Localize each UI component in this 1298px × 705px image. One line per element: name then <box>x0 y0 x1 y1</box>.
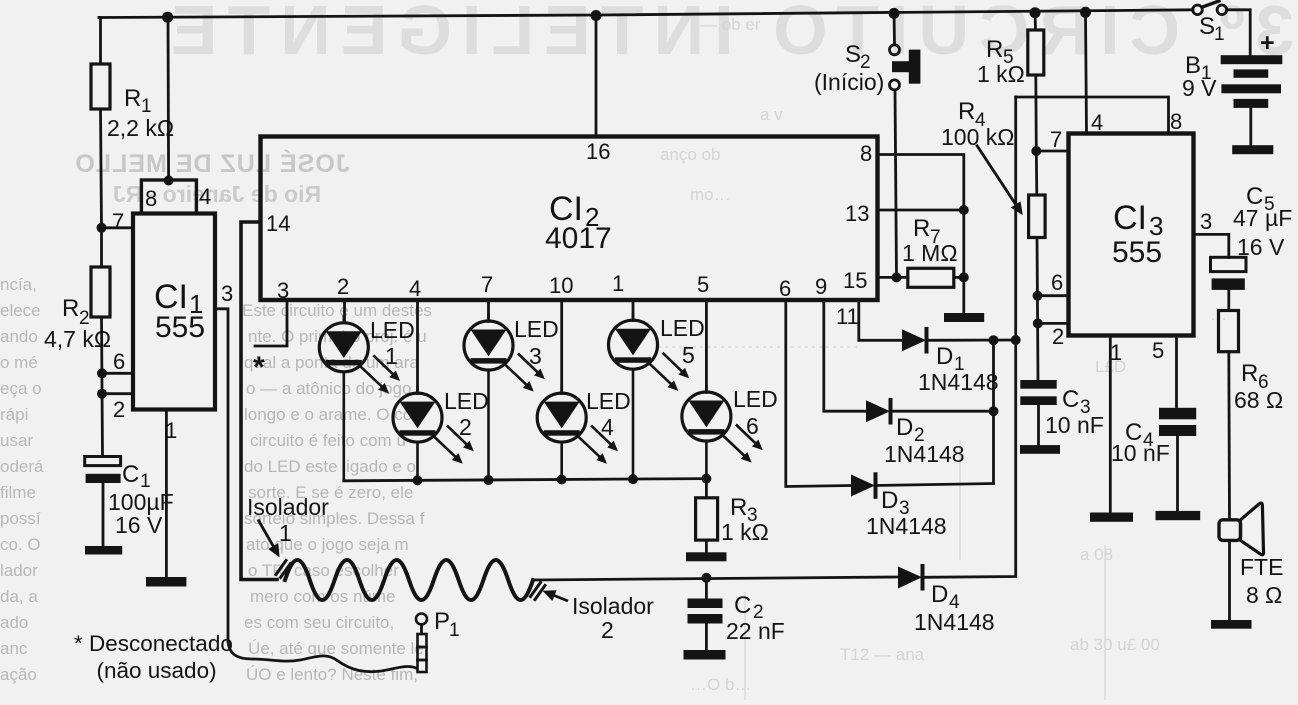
wire pin 16 to rail <box>595 15 598 137</box>
node D1/vertical A junction <box>989 335 999 345</box>
wire R5 to node7 of CI3 <box>1034 75 1037 151</box>
LED 6 <box>682 385 761 479</box>
ghost central column <box>242 301 432 684</box>
ghost faint bits right side <box>660 15 1227 694</box>
node CI3 pin7 junction <box>1031 146 1041 156</box>
label R3 <box>721 494 769 545</box>
LED 1 <box>319 315 398 481</box>
svg-text:…O b…: …O b… <box>690 675 751 694</box>
node pin6 junction <box>97 368 107 378</box>
label D3 <box>866 487 947 539</box>
ground under R3 <box>686 552 727 561</box>
ground under speaker <box>1211 620 1252 629</box>
label R4 <box>941 98 1014 150</box>
arrow to Isolador 1 <box>258 520 278 555</box>
svg-text:R: R <box>124 85 141 112</box>
svg-text:R: R <box>986 36 1003 63</box>
svg-text:100 kΩ: 100 kΩ <box>941 124 1014 150</box>
svg-text:LED: LED <box>514 316 559 342</box>
svg-text:* Desconectado: * Desconectado <box>74 631 233 656</box>
label R1 <box>107 85 174 141</box>
node rail junction R1/CI1 <box>162 12 173 23</box>
label Isolador 2 <box>572 593 654 643</box>
svg-text:10: 10 <box>549 273 573 298</box>
svg-text:ato que o jogo seja m: ato que o jogo seja m <box>246 535 409 554</box>
svg-text:2: 2 <box>337 274 349 299</box>
label footnote <box>74 631 233 683</box>
svg-text:Isolador: Isolador <box>247 494 329 520</box>
label Isolador 1 <box>247 494 329 546</box>
wire pin 15 <box>878 276 908 279</box>
wire rail to pin 4 CI3 <box>1086 12 1087 134</box>
ground under pin 1 CI1 <box>146 577 186 587</box>
wire CI1 pin 3 stub <box>215 309 228 641</box>
svg-text:S: S <box>845 41 861 68</box>
wire pin 2 <box>102 392 133 395</box>
svg-text:usar: usar <box>0 431 33 450</box>
svg-text:R: R <box>1241 360 1258 387</box>
svg-text:CI: CI <box>1113 199 1147 237</box>
svg-text:eça o: eça o <box>0 379 42 398</box>
wire curvy lead to probe P1 <box>228 641 416 672</box>
svg-text:a 08: a 08 <box>1080 545 1113 564</box>
svg-text:R: R <box>62 295 79 322</box>
svg-text:1 MΩ: 1 MΩ <box>902 240 958 266</box>
wire coil end to D4 and up to node <box>533 577 898 580</box>
svg-text:R: R <box>730 494 747 521</box>
svg-text:16 V: 16 V <box>1237 234 1285 260</box>
svg-text:9: 9 <box>815 274 827 299</box>
probe P1 <box>416 614 427 673</box>
wire pin 5 CI3 to C4 <box>1175 336 1178 408</box>
label FTE speaker <box>1240 554 1283 608</box>
svg-text:filme: filme <box>0 483 36 502</box>
wire pin 9 down to D2 <box>824 300 866 411</box>
wire diode common vertical A <box>992 340 995 483</box>
wire pin 1 CI3 to ground <box>1109 336 1112 513</box>
wire pin 1 to LED5 <box>632 300 635 321</box>
svg-text:5: 5 <box>697 272 709 297</box>
svg-text:2: 2 <box>1052 324 1064 349</box>
node D2 junction <box>989 406 999 416</box>
svg-text:C: C <box>122 461 139 488</box>
ground under pin1 CI3 <box>1090 513 1133 522</box>
ground under C2 <box>684 650 726 660</box>
svg-text:oderá: oderá <box>0 457 44 476</box>
svg-text:5: 5 <box>682 342 695 368</box>
label R7 <box>902 215 958 266</box>
label C3 <box>1045 386 1104 438</box>
wire pin 11 down to D1 <box>859 300 902 340</box>
op-amp CI1 555 body <box>133 214 215 410</box>
wire pin 14 to coil <box>241 222 277 580</box>
svg-text:47 µF: 47 µF <box>1233 205 1292 231</box>
svg-text:16: 16 <box>586 139 610 164</box>
LED 5 <box>609 313 688 480</box>
svg-text:ncía,: ncía, <box>0 275 37 294</box>
svg-text:ab 30 u£ 00: ab 30 u£ 00 <box>1070 635 1160 654</box>
svg-text:P: P <box>434 608 450 635</box>
wire rail junction down to CI1 top <box>167 17 170 180</box>
label LED5 <box>660 315 705 368</box>
svg-text:(não usado): (não usado) <box>97 658 217 683</box>
svg-text:R: R <box>958 98 975 125</box>
resistor R3 <box>696 498 718 540</box>
svg-text:T12 — ana: T12 — ana <box>840 645 925 664</box>
capacitor C5 <box>1211 257 1247 310</box>
label P1 <box>434 608 460 641</box>
svg-text:circuito é feito com u: circuito é feito com u <box>250 431 406 450</box>
ground under C4 <box>1156 511 1201 520</box>
wire pin 13 <box>878 209 964 212</box>
wire R7 right <box>954 276 964 279</box>
arrow to R4 <box>976 145 1021 213</box>
node S2/pin15 junction <box>892 272 902 282</box>
label D4 <box>914 581 995 635</box>
wire pin 6 CI3 <box>1038 294 1069 297</box>
LED 3 <box>464 314 543 481</box>
node bus junction LED2 <box>413 475 423 485</box>
svg-text:ando: ando <box>0 327 38 346</box>
svg-text:Úe, até que somente le: Úe, até que somente le <box>248 639 424 658</box>
svg-text:10 nF: 10 nF <box>1111 440 1170 466</box>
wire pin 5 to LED6 <box>705 300 708 393</box>
node rail junction S2 <box>889 8 900 19</box>
capacitor C3 <box>1020 380 1056 445</box>
insulator hatch Isolador 1 <box>276 561 291 578</box>
svg-text:*: * <box>253 351 265 384</box>
svg-text:1: 1 <box>449 620 460 641</box>
svg-text:D: D <box>936 343 953 370</box>
switch S1 <box>1193 1 1251 55</box>
wire coil of game (arame) <box>285 560 533 600</box>
svg-text:JOSÉ LUZ DE MELLO: JOSÉ LUZ DE MELLO <box>74 149 349 178</box>
svg-text:C: C <box>734 592 751 619</box>
svg-text:o — a atônico do jogo: o — a atônico do jogo <box>246 379 411 398</box>
label LED6 <box>733 386 778 439</box>
label CI3 <box>1112 199 1163 269</box>
svg-text:es com seu circuito,: es com seu circuito, <box>244 613 394 632</box>
svg-text:ado: ado <box>0 613 28 632</box>
svg-text:4: 4 <box>409 276 421 301</box>
ghost left margin column <box>0 275 44 684</box>
svg-text:lador: lador <box>0 561 38 580</box>
svg-text:2,2 kΩ: 2,2 kΩ <box>107 115 174 141</box>
node CI1 top junction <box>164 176 174 186</box>
svg-text:1 kΩ: 1 kΩ <box>977 61 1025 87</box>
svg-text:+: + <box>1260 29 1275 57</box>
svg-text:anc: anc <box>0 639 28 658</box>
svg-text:1N4148: 1N4148 <box>918 369 999 395</box>
ghost author credit <box>74 149 349 207</box>
wire pin 6 down to D3 <box>786 300 851 487</box>
wire top supply rail <box>99 10 1193 18</box>
svg-text:— ob er: — ob er <box>700 15 761 34</box>
wire R1 bottom to node 7 <box>101 109 102 228</box>
IC CI3 555 body <box>1069 134 1194 336</box>
pin labels CI3 <box>1050 109 1212 365</box>
svg-text:rápi: rápi <box>0 405 28 424</box>
svg-text:1N4148: 1N4148 <box>866 513 947 539</box>
svg-text:1: 1 <box>141 96 152 117</box>
svg-text:1N4148: 1N4148 <box>914 609 995 635</box>
svg-text:6: 6 <box>113 349 125 374</box>
wire pin 8 right to ground chain <box>878 155 964 314</box>
node bus junction LED3 <box>484 475 494 485</box>
svg-text:1: 1 <box>612 271 624 296</box>
svg-text:9 V: 9 V <box>1182 75 1217 101</box>
ground under C3 <box>1020 445 1060 454</box>
svg-text:S: S <box>1199 13 1215 40</box>
label LED1 <box>370 317 415 369</box>
svg-text:do LED este ligado e o: do LED este ligado e o <box>244 457 416 476</box>
svg-text:2: 2 <box>113 397 125 422</box>
wire pin 10 to LED4 <box>560 300 563 394</box>
wire pin 3 stub unused <box>255 300 287 346</box>
svg-text:da, a: da, a <box>0 587 38 606</box>
wire pin 3 CI3 to C5 <box>1194 234 1229 257</box>
wire pin 4 to LED2 <box>416 300 419 394</box>
svg-text:1: 1 <box>1214 24 1225 45</box>
node rail junction CI3 pin4 <box>1080 7 1091 18</box>
ground under C1 <box>85 546 122 555</box>
wire CI1 pin 1 to ground <box>165 410 168 578</box>
svg-text:3: 3 <box>1200 209 1212 234</box>
diode D4 <box>898 97 1016 589</box>
svg-text:mero com os núme: mero com os núme <box>250 587 396 606</box>
label LED3 <box>514 316 559 369</box>
svg-text:LED: LED <box>586 388 631 414</box>
wire pin 7 to LED3 <box>487 300 490 322</box>
svg-text:LED: LED <box>370 317 415 343</box>
svg-text:1N4148: 1N4148 <box>884 441 965 467</box>
wire left branch down to R1 <box>99 18 101 65</box>
svg-text:2: 2 <box>459 414 472 440</box>
wire pin 6 <box>102 372 133 375</box>
label C2 <box>726 592 785 644</box>
op-amp CI1 pins 8-4 notch <box>141 180 196 214</box>
svg-text:o TR, caso escolher: o TR, caso escolher <box>248 561 399 580</box>
IC CI2 4017 body <box>261 137 878 301</box>
wire pin 7 CI3 <box>1036 150 1068 153</box>
svg-text:C: C <box>1062 386 1079 413</box>
ghost bleed-through banner <box>161 0 1294 69</box>
svg-text:11: 11 <box>836 304 859 329</box>
diode D1 <box>902 329 1016 352</box>
capacitor C1 <box>85 457 121 547</box>
resistor R5 <box>1028 30 1044 75</box>
switch S2 pushbutton <box>890 45 921 90</box>
svg-text:LED: LED <box>444 388 489 414</box>
svg-text:(Início): (Início) <box>814 69 884 95</box>
LED 4 <box>537 386 616 480</box>
label CI1 <box>154 278 205 344</box>
resistor R2 <box>91 267 110 317</box>
resistor R1 <box>91 64 110 109</box>
svg-text:6: 6 <box>746 413 759 439</box>
label S1 <box>1199 13 1225 45</box>
node C2 tap <box>701 573 711 583</box>
label CI2 <box>545 190 612 255</box>
wire R3 to ground <box>705 540 708 552</box>
svg-text:4017: 4017 <box>545 222 612 255</box>
svg-text:FTE: FTE <box>1240 554 1283 580</box>
node bus junction LED6/R3 <box>701 474 711 484</box>
pin labels CI1 <box>112 184 233 443</box>
wire node7 down to R2 <box>100 228 103 267</box>
resistor R6 <box>1219 311 1239 352</box>
wire pin 2 to LED1 <box>343 300 346 323</box>
wire pin 7 to CI1 <box>102 226 134 229</box>
node bus junction LED5 <box>628 474 638 484</box>
label LED4 <box>586 388 631 440</box>
svg-text:D: D <box>881 487 898 514</box>
node bus junction LED4 <box>557 475 567 485</box>
node rail junction R5 <box>1030 7 1041 18</box>
svg-text:1: 1 <box>165 418 177 443</box>
svg-text:15: 15 <box>843 268 867 293</box>
svg-text:555: 555 <box>155 311 205 344</box>
svg-text:2: 2 <box>601 617 614 643</box>
wire rail to S2 <box>893 13 896 45</box>
label C4 <box>1111 419 1170 466</box>
svg-text:1: 1 <box>1110 340 1122 365</box>
wire LED cathode bus <box>344 479 707 481</box>
svg-text:D: D <box>896 414 913 441</box>
svg-text:4,7 kΩ: 4,7 kΩ <box>44 326 111 352</box>
wire R4 down through pin6 pin2 to C3 <box>1037 238 1038 381</box>
svg-text:LED: LED <box>660 315 705 341</box>
svg-text:16 V: 16 V <box>115 512 163 538</box>
svg-text:3: 3 <box>277 278 289 303</box>
svg-text:555: 555 <box>1112 236 1162 269</box>
svg-text:3: 3 <box>221 281 233 306</box>
wire pin8 CI3 feed horizontal <box>1016 97 1169 134</box>
label R6 <box>1234 360 1283 413</box>
wire node7 to R4 <box>1035 151 1038 195</box>
label R5 <box>977 36 1025 87</box>
label B1 <box>1182 29 1275 101</box>
svg-text:8: 8 <box>860 141 872 166</box>
label C1 <box>108 461 174 538</box>
svg-text:Isolador: Isolador <box>572 593 654 619</box>
svg-text:4: 4 <box>1091 110 1103 135</box>
svg-text:D: D <box>931 581 948 608</box>
wire S2 down to pin15 node <box>895 90 897 277</box>
svg-text:1: 1 <box>279 520 292 546</box>
arrow to Isolador 2 <box>546 592 569 601</box>
svg-text:8: 8 <box>1170 109 1182 134</box>
svg-text:3: 3 <box>529 343 542 369</box>
speaker FTE <box>1219 503 1264 620</box>
label D1 <box>918 343 999 395</box>
node pin2 junction <box>97 389 107 399</box>
label C5 <box>1233 183 1292 260</box>
svg-text:8: 8 <box>145 186 157 211</box>
svg-text:a v: a v <box>760 105 783 124</box>
diode D2 <box>866 400 994 423</box>
capacitor C2 <box>688 578 723 650</box>
battery B1 <box>1221 55 1283 145</box>
svg-text:1: 1 <box>385 343 398 369</box>
wire R6 to speaker <box>1227 352 1230 520</box>
resistor R4 <box>1029 195 1046 238</box>
svg-text:R: R <box>913 215 930 242</box>
svg-text:6: 6 <box>779 276 791 301</box>
capacitor C4 <box>1159 408 1196 511</box>
node pin13 junction <box>959 205 969 215</box>
resistor R7 <box>908 268 954 287</box>
svg-text:longo e o arame. O co: longo e o arame. O co <box>244 405 412 424</box>
node D1/vertical B junction <box>1011 335 1021 345</box>
ground under R7 chain <box>944 313 984 322</box>
label LED2 <box>444 388 489 440</box>
svg-text:13: 13 <box>845 201 869 226</box>
node CI3 pin6 junction <box>1033 291 1043 301</box>
node pin7 junction <box>97 223 107 233</box>
svg-text:10 nF: 10 nF <box>1045 412 1104 438</box>
label arrows <box>258 145 1021 601</box>
wire bus to R3 <box>705 479 708 498</box>
svg-text:7: 7 <box>1050 127 1062 152</box>
label R2 <box>44 295 111 352</box>
node R7 right junction <box>959 272 969 282</box>
svg-text:1 kΩ: 1 kΩ <box>721 519 769 545</box>
wire R2 bottom through pins 6,2 to C1 <box>102 317 103 457</box>
svg-text:6: 6 <box>1051 270 1063 295</box>
svg-text:68 Ω: 68 Ω <box>1234 387 1283 413</box>
svg-text:co. O: co. O <box>0 535 41 554</box>
node CI3 pin2 junction <box>1033 318 1043 328</box>
svg-text:7: 7 <box>112 209 124 234</box>
node rail junction pin16 <box>591 10 602 21</box>
svg-text:mo…: mo… <box>690 185 731 204</box>
svg-text:anço ob: anço ob <box>660 145 721 164</box>
label S2 <box>814 41 884 95</box>
LED 2 <box>393 386 472 481</box>
wire pin 2 CI3 <box>1038 322 1069 325</box>
svg-text:14: 14 <box>266 211 290 236</box>
insulator hatch Isolador 2 <box>531 583 546 600</box>
label D2 <box>884 414 965 467</box>
diode D3 <box>851 474 994 497</box>
svg-text:8 Ω: 8 Ω <box>1246 582 1282 608</box>
wire rail to R5 <box>1034 13 1037 31</box>
svg-text:4: 4 <box>199 184 211 209</box>
svg-text:5: 5 <box>1152 338 1164 363</box>
svg-text:7: 7 <box>481 272 493 297</box>
svg-text:possí: possí <box>0 509 41 528</box>
ground under battery <box>1232 145 1273 154</box>
svg-text:LED: LED <box>733 386 778 412</box>
svg-text:o mé: o mé <box>0 353 38 372</box>
svg-text:4: 4 <box>601 414 614 440</box>
svg-text:elece: elece <box>0 301 41 320</box>
pin labels CI2 <box>266 139 872 329</box>
svg-text:ação: ação <box>0 665 37 684</box>
svg-text:22 nF: 22 nF <box>726 618 785 644</box>
